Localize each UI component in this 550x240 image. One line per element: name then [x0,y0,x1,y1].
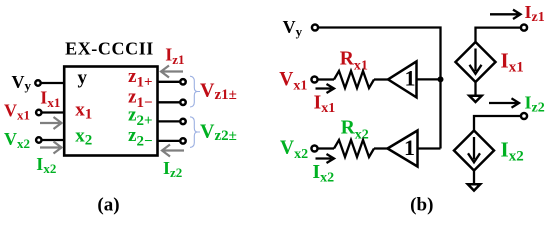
ground 2 [468,184,480,190]
arrow Iz2 (b) [489,98,519,107]
op-amp buffer1 [388,61,417,97]
wire x2 to resistor [318,147,334,149]
resistor Rx1 [334,71,374,88]
arrow Ix2 (b) [316,154,335,163]
wire resistor to buffer2 [374,147,388,149]
current source Ix1 diamond [456,42,496,82]
wire y [41,82,64,84]
terminal z2+ [180,119,185,124]
terminal z1- [180,100,185,105]
terminal z1 (b) [521,25,527,31]
terminal x2 [36,137,41,142]
wire z2- [158,140,180,142]
current source Ix2 diamond [454,131,494,171]
svg-text:1: 1 [404,135,415,160]
arrow inside source1 [470,49,482,74]
svg-text:EX-CCCII: EX-CCCII [65,39,154,59]
wire z2+ [158,120,180,122]
node junction dot [438,76,444,82]
svg-text:(a): (a) [97,195,119,216]
wire source1 to ground [474,82,476,96]
block U1 EX-CCCII box [64,67,157,156]
wire x1 [42,111,64,113]
terminal z1+ [180,79,185,84]
wire source1 to z1 terminal [476,28,521,42]
terminal x1 [36,110,41,115]
wire x1 to resistor [318,78,334,80]
brace z2 group [190,117,200,148]
arrow Iz1 (b) [490,10,521,19]
wire buffer1 output [417,78,441,80]
terminal z2 (b) [521,113,527,119]
terminal z2- [180,138,185,143]
resistor Rx2 [334,140,374,157]
arrow Iz2 out of box [162,145,184,157]
terminal x2 (b) [311,145,317,151]
wire x2 [42,139,64,141]
brace z1 group [190,76,200,107]
arrow Iz1 out of box [161,66,183,78]
svg-text:(b): (b) [410,195,433,216]
arrow inside source2 [468,137,480,162]
wire source2 to z2 terminal [474,116,520,131]
arrow Ix1 (b) [316,84,335,93]
ground 1 [469,96,481,102]
wire y to node (b) [319,28,441,149]
terminal y [35,80,40,85]
terminal y (b) [312,24,318,30]
svg-text:1: 1 [405,66,416,91]
arrow Ix2 into box [40,142,62,154]
wire source2 to ground [473,171,475,185]
wire z1- [158,101,180,103]
wire z1+ [158,81,180,83]
wire resistor to buffer1 [374,78,388,80]
arrow Ix1 into box [40,117,62,129]
terminal x1 (b) [311,76,317,82]
svg-text:y: y [78,68,88,89]
op-amp buffer2 [388,131,418,167]
wire buffer2 output [418,147,441,149]
